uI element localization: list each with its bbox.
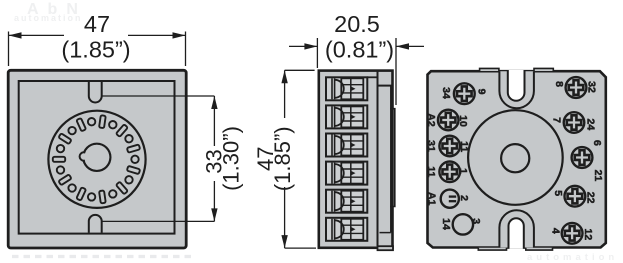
svg-text:2: 2 xyxy=(458,195,470,201)
svg-text:11: 11 xyxy=(458,141,470,152)
svg-text:11: 11 xyxy=(425,166,437,177)
svg-text:34: 34 xyxy=(440,87,452,99)
svg-text:10: 10 xyxy=(457,115,469,127)
svg-text:32: 32 xyxy=(586,81,598,93)
svg-text:47: 47 xyxy=(84,11,110,37)
svg-text:automation: automation xyxy=(527,252,618,263)
svg-text:21: 21 xyxy=(592,170,604,182)
svg-text:A1: A1 xyxy=(426,192,438,206)
svg-text:A2: A2 xyxy=(425,113,437,127)
svg-text:20.5: 20.5 xyxy=(334,11,380,37)
svg-text:(1.85”): (1.85”) xyxy=(61,37,130,63)
svg-text:24: 24 xyxy=(585,119,597,131)
svg-text:12: 12 xyxy=(582,229,594,241)
svg-text:31: 31 xyxy=(425,140,437,152)
svg-text:1: 1 xyxy=(457,168,469,174)
svg-text:(1.85”): (1.85”) xyxy=(270,126,295,191)
svg-text:9: 9 xyxy=(476,89,488,95)
svg-text:14: 14 xyxy=(440,218,452,230)
svg-text:6: 6 xyxy=(591,140,603,146)
svg-text:automation: automation xyxy=(14,13,83,23)
svg-text:(1.30”): (1.30”) xyxy=(219,126,244,191)
svg-text:22: 22 xyxy=(585,192,597,204)
svg-text:4: 4 xyxy=(550,228,562,234)
svg-text:3: 3 xyxy=(470,218,482,224)
svg-text:(0.81”): (0.81”) xyxy=(325,37,394,63)
svg-text:7: 7 xyxy=(551,117,563,123)
svg-text:5: 5 xyxy=(552,190,564,196)
svg-text:8: 8 xyxy=(553,81,565,87)
